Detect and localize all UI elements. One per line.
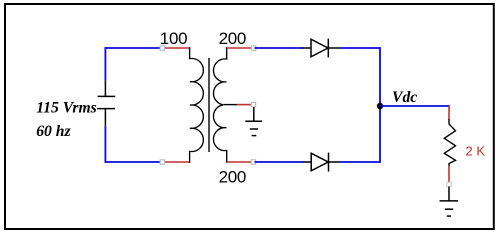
wire top to diode D1 (blue) [255,47,304,49]
svg-text:100: 100 [160,29,187,48]
wire resistor bottom red lead [448,166,450,184]
wire diode D1 to right bus (blue) [339,47,380,49]
svg-text:60 hz: 60 hz [36,123,71,140]
diode D1 [302,39,340,58]
wire top-left horizontal (blue) [105,47,162,49]
wire red pin lead bottom-left to transformer primary [164,161,190,163]
transformer core [208,58,210,152]
svg-text:2 K: 2 K [466,144,486,159]
wire resistor top red lead [448,106,450,120]
diode D2 [303,153,340,172]
transformer TX1 primary winding [190,47,204,162]
resistor R1 zigzag [444,119,455,166]
node pin square top-right [251,46,256,51]
svg-text:Vdc: Vdc [392,89,417,106]
wire center tap (black then red) [224,104,238,106]
wire secondary top red lead [227,47,252,49]
ground resistor [440,187,459,217]
node pin square bottom-right [251,160,256,165]
svg-text:200: 200 [219,29,246,48]
svg-text:115 Vrms: 115 Vrms [36,100,97,117]
voltage source V1 (115 Vrms 60 hz) [97,81,115,127]
wire left vertical upper (blue) [104,47,106,81]
node Vdc junction dot [377,103,383,109]
wire bottom to diode D2 (blue) [255,161,304,163]
transformer TX1 secondary winding [213,47,226,162]
svg-text:200: 200 [219,167,246,186]
node pin square center tap [251,102,256,107]
wire red pin lead top-left to transformer primary [164,47,190,49]
node pin square top-left [160,46,165,51]
node pin square bottom-left [160,160,165,165]
wire Vdc to resistor (blue) [380,105,450,107]
wire diode D2 to right bus (blue) [340,161,380,163]
node pin square resistor ground [447,182,452,187]
wire right vertical bus (blue) [379,47,381,163]
wire left vertical lower (blue) [104,126,106,163]
wire secondary bottom red lead [227,161,252,163]
wire bottom-left horizontal (blue) [105,161,162,163]
ground center tap [245,107,262,136]
